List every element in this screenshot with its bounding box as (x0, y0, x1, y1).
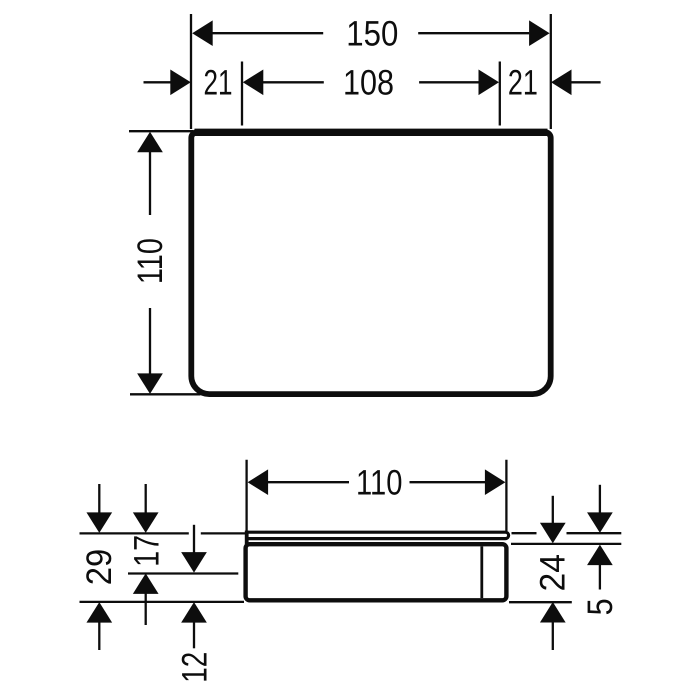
svg-text:24: 24 (533, 554, 573, 592)
svg-text:12: 12 (174, 652, 214, 683)
svg-text:29: 29 (79, 549, 119, 586)
svg-text:110: 110 (356, 462, 403, 502)
svg-text:5: 5 (580, 598, 620, 615)
svg-text:108: 108 (343, 63, 394, 103)
svg-text:110: 110 (130, 238, 170, 284)
svg-text:150: 150 (346, 14, 398, 54)
svg-text:21: 21 (204, 63, 233, 103)
svg-text:21: 21 (508, 63, 538, 103)
svg-text:17: 17 (127, 535, 167, 567)
